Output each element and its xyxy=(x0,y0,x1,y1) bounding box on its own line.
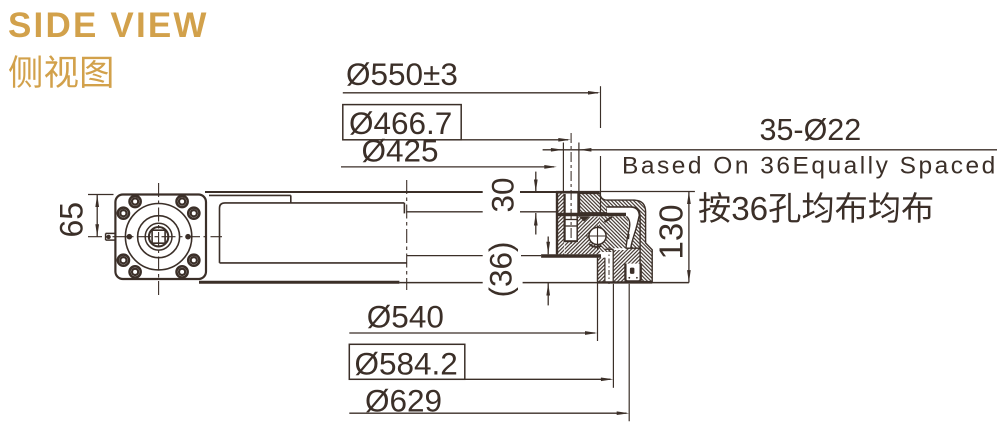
section top face thick xyxy=(556,191,600,194)
dim 130 line xyxy=(688,192,690,283)
bearing ball xyxy=(589,227,606,244)
bolt hole edge ext lines xyxy=(562,143,564,192)
body top edge xyxy=(205,191,483,193)
worm shaft stub xyxy=(106,232,116,234)
svg-text:Ø550±3: Ø550±3 xyxy=(346,56,458,92)
dim O466.7 line xyxy=(461,139,568,141)
svg-text:SIDE VIEW: SIDE VIEW xyxy=(8,6,209,45)
svg-text:Ø584.2: Ø584.2 xyxy=(355,346,458,382)
svg-text:65: 65 xyxy=(54,202,90,238)
dim O584.2 box xyxy=(349,344,465,379)
svg-text:Based On 36Equally Spaced: Based On 36Equally Spaced xyxy=(622,153,998,180)
inner top face ext line xyxy=(406,211,483,213)
motor mounting flange square xyxy=(115,195,206,280)
mesh thick line xyxy=(557,213,626,217)
pad ext line xyxy=(407,255,483,257)
ball vertical centerline over xyxy=(597,226,599,250)
dim O540 line xyxy=(349,332,595,334)
slewing axis centerline xyxy=(406,180,408,290)
O540 ext vertical xyxy=(597,258,599,341)
dim O425 line xyxy=(341,166,554,168)
O550 ext vertical (upper) xyxy=(600,86,602,128)
section bottom edge xyxy=(598,281,653,283)
svg-text:30: 30 xyxy=(485,177,521,212)
bolt hole centerline xyxy=(570,133,572,246)
dim O629 line xyxy=(349,412,626,414)
hatch below-mesh left block xyxy=(577,217,600,255)
body bottom edge thick xyxy=(199,281,399,284)
note Chinese xyxy=(699,192,730,223)
body pocket outline xyxy=(220,203,405,263)
svg-text:(36): (36) xyxy=(483,241,519,297)
grease slot xyxy=(605,248,613,250)
O550 ext vertical (lower, ball CL) xyxy=(600,156,602,216)
gap boundary lines xyxy=(607,207,639,248)
svg-text:130: 130 xyxy=(653,204,690,259)
race wedge + race lines xyxy=(579,216,590,221)
dim O550 line xyxy=(343,92,598,94)
dim 30 vertical outside arrows xyxy=(535,172,537,192)
svg-text:36: 36 xyxy=(731,191,768,228)
dim (36) vertical outside arrows xyxy=(547,237,549,255)
body boss step xyxy=(209,194,291,196)
splined bore xyxy=(149,227,168,246)
subtitle Chinese: 侧视图 xyxy=(9,55,41,88)
rotating ring (cap+wall+foot) backslash hatch xyxy=(580,193,653,281)
O629 ext vertical xyxy=(628,284,630,422)
35-O22 leader xyxy=(543,149,997,151)
flange vertical centerline xyxy=(158,183,160,297)
dim 65 line w/ arrows xyxy=(96,195,98,237)
130 top ext xyxy=(600,191,695,193)
outer ring bore edge xyxy=(556,192,558,254)
flange bolts 8x xyxy=(188,208,199,219)
hatch strips above seal xyxy=(613,250,625,282)
tooth mid tick xyxy=(627,234,629,239)
flange pilot circles xyxy=(125,204,191,270)
seal cup xyxy=(625,264,640,282)
tooth bottom line xyxy=(626,247,641,249)
dim O584.2 line xyxy=(465,378,611,380)
svg-text:Ø425: Ø425 xyxy=(362,133,439,169)
svg-text:Ø540: Ø540 xyxy=(367,299,444,335)
dim O466.7 box xyxy=(343,105,461,140)
dim 65 ext line xyxy=(88,194,114,196)
O584.2 ext vertical xyxy=(612,284,614,388)
bolt slot walls/bottom/ticks xyxy=(563,194,565,242)
centerline dots xyxy=(127,234,133,240)
mounting pad thick xyxy=(541,254,601,257)
flange horizontal centerline xyxy=(88,236,222,238)
bottom edge thin/ext xyxy=(399,282,482,284)
hatch left strip xyxy=(558,194,565,255)
labyrinth gap white channel xyxy=(607,207,639,248)
inner ring lip xyxy=(598,258,605,282)
hatch inner zone right of ball xyxy=(600,217,640,253)
svg-text:35-Ø22: 35-Ø22 xyxy=(760,113,862,147)
